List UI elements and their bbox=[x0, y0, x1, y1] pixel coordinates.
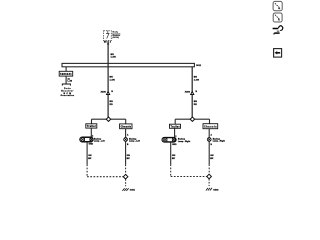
svg-text:GN: GN bbox=[88, 155, 92, 157]
svg-text:BK: BK bbox=[127, 158, 131, 160]
svg-text:L-08: L-08 bbox=[68, 81, 73, 83]
connector box (right lamp of right group) bbox=[203, 124, 218, 129]
label: Backup Lamp - Left bbox=[94, 138, 105, 142]
svg-text:RD: RD bbox=[110, 104, 114, 106]
wire: box to lamp bbox=[174, 128, 176, 137]
wire: right drop from bus bbox=[191, 67, 193, 117]
inline connector X408 on right drop bbox=[185, 90, 198, 94]
lamp assembly L1 (stadium housing) bbox=[80, 137, 93, 142]
svg-text:Chassis: Chassis bbox=[204, 126, 217, 129]
serial data bus (twisted pair) bbox=[62, 63, 194, 66]
arrow into BCM bbox=[107, 41, 109, 45]
wire: lamp to ground run bbox=[86, 142, 88, 164]
dashed wire to ground bbox=[125, 179, 127, 186]
svg-text:1-GN: 1-GN bbox=[110, 79, 116, 81]
svg-text:GND: GND bbox=[172, 144, 177, 146]
svg-text:Generation: Generation bbox=[61, 94, 75, 97]
label: Data Receiver BCM Generation bbox=[61, 87, 75, 97]
svg-text:BK: BK bbox=[172, 158, 176, 160]
node box: splice pack label bbox=[59, 71, 72, 76]
svg-text:BK: BK bbox=[210, 158, 214, 160]
svg-text:Lamp - Right: Lamp - Right bbox=[213, 140, 226, 143]
wire: left branch drop bbox=[91, 119, 93, 124]
svg-text:B8: B8 bbox=[104, 42, 108, 44]
svg-text:A: A bbox=[211, 134, 213, 137]
dashed wire down-left (right group) bbox=[170, 164, 172, 176]
svg-text:5986331: 5986331 bbox=[60, 73, 72, 76]
solid state driver symbol inside BCM bbox=[106, 31, 109, 39]
toolbar icon: jump-out button 2 bbox=[273, 13, 282, 22]
svg-text:2: 2 bbox=[110, 41, 112, 43]
svg-text:BN: BN bbox=[194, 76, 198, 78]
wire: bus left stub down bbox=[65, 67, 67, 72]
label: Backup Lamp - Right bbox=[178, 139, 191, 143]
svg-text:A: A bbox=[127, 134, 129, 137]
wire label GN BK bbox=[210, 155, 214, 160]
wire label GN BK bbox=[88, 155, 92, 160]
bulb E2 (circle-X) bbox=[124, 138, 128, 142]
svg-text:X408: X408 bbox=[101, 90, 107, 93]
svg-text:1-GN: 1-GN bbox=[194, 79, 200, 81]
svg-text:1-GN: 1-GN bbox=[111, 56, 117, 58]
svg-text:B: B bbox=[127, 144, 129, 146]
svg-text:GN: GN bbox=[127, 155, 131, 157]
ground splice diamond bbox=[123, 174, 128, 179]
svg-text:Trailer: Trailer bbox=[171, 126, 180, 129]
wire label GN BK bbox=[172, 155, 176, 160]
svg-text:B: B bbox=[211, 144, 213, 146]
ground G401 bbox=[122, 188, 135, 191]
svg-text:Lamp - Left: Lamp - Left bbox=[94, 140, 105, 143]
lamp assembly L2 (stadium housing) bbox=[162, 137, 176, 142]
wire: right branch drop (right group) bbox=[209, 119, 211, 124]
ground G402 bbox=[206, 188, 219, 191]
wire: left branch drop (right group) bbox=[174, 119, 176, 124]
wire: right group horizontal bbox=[175, 118, 209, 120]
dashed wire horizontal to splice (right group) bbox=[171, 176, 207, 178]
svg-text:Lamp - Right: Lamp - Right bbox=[178, 140, 191, 143]
connector box (right lamp of left group) bbox=[120, 124, 132, 129]
label: Backup Lamp - Right bbox=[213, 138, 226, 142]
module U1 Body Control Module dashed outline bbox=[104, 31, 112, 41]
label: Backup Lamp - Left bbox=[129, 138, 140, 142]
svg-text:BN: BN bbox=[110, 76, 114, 78]
wire label BN RD (left, below connector) bbox=[110, 101, 114, 106]
svg-text:GN: GN bbox=[172, 155, 176, 157]
wire: right branch drop (left group) bbox=[125, 119, 127, 124]
splice diamond S2 bbox=[190, 117, 194, 121]
inline connector X408 on left drop bbox=[101, 90, 114, 94]
svg-text:G401: G401 bbox=[130, 189, 136, 192]
svg-text:G402: G402 bbox=[213, 188, 219, 191]
wire label BN 1-GN (left drop below bus) bbox=[110, 76, 116, 81]
svg-text:5011: 5011 bbox=[196, 65, 202, 67]
svg-text:X408: X408 bbox=[185, 90, 191, 93]
connector box (left lamp of right group) bbox=[170, 124, 181, 128]
toolbar icon: jump-out button 1 bbox=[273, 1, 282, 10]
bulb E4 (circle-X) bbox=[207, 138, 211, 142]
wire: bulb to splice bbox=[125, 141, 127, 164]
dashed wire horizontal to splice bbox=[87, 176, 123, 178]
wire: left group horizontal bbox=[92, 118, 126, 120]
svg-text:GN: GN bbox=[210, 155, 214, 157]
wire: box to bulb bbox=[208, 129, 210, 138]
wire label BN RD (right, below connector) bbox=[194, 101, 198, 106]
wire: lamp to ground run bbox=[170, 142, 172, 164]
svg-text:Chassis: Chassis bbox=[121, 126, 132, 129]
svg-text:BK: BK bbox=[88, 158, 92, 160]
svg-text:B: B bbox=[196, 91, 198, 93]
svg-text:(BCM): (BCM) bbox=[113, 37, 120, 39]
dashed wire to ground (right) bbox=[208, 179, 210, 186]
dashed wire into splice bbox=[125, 164, 127, 174]
wire label BN 1-GN (above bus) bbox=[111, 54, 117, 58]
dashed wire into splice (right group) bbox=[208, 164, 210, 174]
svg-text:B: B bbox=[111, 91, 113, 93]
toolbar icon: back button bbox=[274, 49, 282, 58]
svg-text:RD: RD bbox=[194, 104, 198, 106]
svg-text:GND: GND bbox=[89, 144, 94, 146]
toolbar icon: swap arrows bbox=[273, 26, 283, 35]
wire: bulb to splice bbox=[208, 141, 210, 164]
wire: box to lamp bbox=[90, 128, 92, 137]
wire label GN BK bbox=[127, 155, 131, 160]
svg-text:BN: BN bbox=[110, 101, 114, 103]
wire: box to bulb bbox=[125, 129, 127, 138]
wire from BCM pin to serial data bus bbox=[107, 41, 109, 117]
wire label BN 1-GN (right drop) bbox=[194, 76, 200, 81]
wire from splice box to off-page symbol bbox=[65, 76, 67, 84]
wire label 2x L-08 bbox=[68, 78, 73, 82]
dashed wire down-left bbox=[86, 164, 88, 176]
svg-text:Lamp - Left: Lamp - Left bbox=[129, 140, 140, 143]
label: Body Control Module (BCM) bbox=[113, 32, 121, 39]
connector box (left lamp) bbox=[86, 124, 97, 128]
svg-text:Trailer: Trailer bbox=[87, 125, 96, 128]
svg-text:BN: BN bbox=[194, 101, 198, 103]
ground splice diamond (right) bbox=[207, 174, 212, 179]
off-page connector symbol bbox=[62, 84, 70, 86]
splice diamond S1 bbox=[106, 117, 110, 121]
